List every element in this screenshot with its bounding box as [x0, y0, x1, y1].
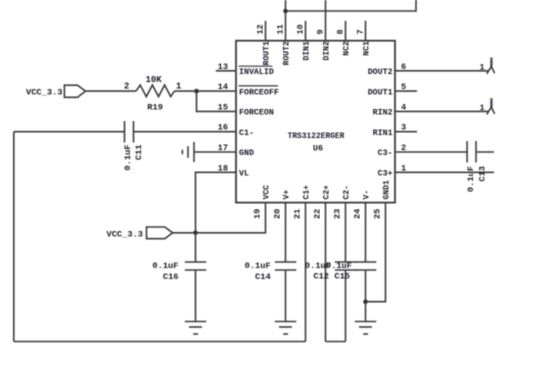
svg-text:5: 5 [401, 82, 406, 92]
svg-text:10K: 10K [146, 75, 163, 85]
pin 14 FORCEOFF label [239, 86, 279, 97]
svg-text:16: 16 [218, 123, 228, 133]
pin 13 stub [216, 62, 236, 72]
pin 5 stub [395, 82, 417, 92]
svg-text:C1-: C1- [239, 129, 254, 138]
pin 19 wire [173, 203, 266, 233]
junction VL / VCC net [193, 231, 198, 236]
wire C16 to ground [195, 270, 197, 322]
pin 24 wire [353, 203, 366, 262]
junction at R19 / pin14 [194, 89, 199, 94]
svg-text:20: 20 [273, 209, 283, 219]
pin 6 wire [395, 62, 489, 72]
pin 3 stub [395, 123, 417, 133]
svg-text:17: 17 [218, 143, 228, 153]
wire C11 to left rail [14, 131, 125, 133]
svg-text:C12: C12 [313, 272, 329, 282]
svg-text:7: 7 [356, 29, 366, 34]
ground (C16) [185, 322, 207, 335]
pin 17 wire [194, 143, 236, 153]
no-connect marker pin 6 [480, 58, 495, 74]
power flag VCC_3.3 (top) [26, 85, 136, 97]
junction at pin 11 [283, 9, 288, 14]
ground (pin 17, rotated left) [182, 142, 194, 162]
svg-text:8: 8 [336, 29, 346, 34]
op-amp U1 : IC body TRS3122ERGER U6 [236, 41, 395, 203]
svg-text:21: 21 [293, 209, 303, 219]
svg-text:C15: C15 [334, 272, 350, 282]
svg-text:GND1: GND1 [382, 180, 391, 199]
svg-text:0.1uF: 0.1uF [123, 145, 133, 171]
svg-text:2: 2 [124, 81, 129, 91]
svg-text:ROUT1: ROUT1 [262, 41, 271, 65]
svg-text:RIN1: RIN1 [373, 129, 393, 138]
svg-text:19: 19 [253, 209, 263, 219]
pin 21 wire [293, 203, 306, 342]
capacitor C11 [123, 121, 144, 171]
pin 14 wire [197, 82, 237, 92]
capacitor C14 [245, 261, 297, 282]
svg-text:6: 6 [401, 62, 406, 72]
svg-text:DIN1: DIN1 [302, 41, 311, 60]
svg-text:15: 15 [218, 102, 228, 112]
svg-text:C3-: C3- [378, 149, 393, 158]
capacitor C13 [466, 141, 494, 192]
svg-text:10: 10 [296, 24, 306, 34]
wire C15 to ground [365, 270, 367, 322]
svg-text:INVALID: INVALID [239, 68, 274, 77]
svg-text:DOUT2: DOUT2 [368, 68, 393, 77]
capacitor C12 [305, 261, 356, 282]
svg-text:V-: V- [362, 190, 371, 200]
svg-text:0.1uF: 0.1uF [245, 261, 271, 271]
ground (C14) [275, 322, 297, 335]
svg-text:0.1uF: 0.1uF [326, 261, 352, 271]
svg-text:1: 1 [480, 103, 485, 113]
pin number 12 [256, 21, 266, 41]
wire bottom rail to pin 21 [14, 341, 306, 343]
svg-text:GND: GND [239, 149, 254, 158]
pin number 10 [296, 21, 306, 41]
svg-text:C16: C16 [163, 272, 179, 282]
wire pin 11 to top edge [285, 0, 287, 41]
svg-text:C14: C14 [255, 272, 271, 282]
wire VL to C16 [195, 233, 197, 262]
pin 13 INVALID label [239, 66, 274, 77]
svg-text:9: 9 [316, 29, 326, 34]
wire C12 to bottom link [345, 270, 347, 342]
svg-text:VCC_3.3: VCC_3.3 [107, 229, 144, 239]
pin 25 wire [366, 203, 386, 302]
pin 4 wire [395, 102, 489, 112]
svg-text:25: 25 [373, 209, 383, 219]
svg-text:V+: V+ [282, 190, 291, 200]
resistor R19 [124, 75, 197, 113]
svg-text:C11: C11 [134, 145, 144, 161]
svg-text:0.1uF: 0.1uF [152, 261, 178, 271]
svg-text:1: 1 [480, 62, 485, 72]
wire left rail vertical [13, 132, 15, 342]
svg-text:DOUT1: DOUT1 [368, 88, 393, 97]
svg-text:U6: U6 [313, 143, 323, 153]
svg-text:3: 3 [401, 123, 406, 133]
power flag VCC_3.3 (bottom) [107, 227, 173, 239]
pin 15 wire [197, 91, 237, 112]
pin 20 wire [273, 203, 286, 262]
pin 22 wire [313, 203, 326, 342]
svg-text:18: 18 [218, 163, 228, 173]
pin 18 wire [196, 163, 237, 233]
svg-text:VCC: VCC [262, 185, 271, 200]
svg-text:22: 22 [313, 209, 323, 219]
svg-text:DIN2: DIN2 [322, 41, 331, 60]
pin number 8 [336, 21, 346, 41]
svg-text:12: 12 [256, 24, 266, 34]
svg-text:C2-: C2- [342, 185, 351, 200]
svg-text:1: 1 [176, 81, 181, 91]
wire pin 9 to top edge [325, 0, 327, 41]
svg-text:VL: VL [239, 170, 249, 179]
svg-text:C13: C13 [477, 166, 487, 182]
svg-text:11: 11 [276, 24, 286, 34]
svg-text:RIN2: RIN2 [373, 109, 393, 118]
svg-text:0.1uF: 0.1uF [466, 166, 476, 192]
ground (V-) [355, 322, 377, 335]
pin 1 wire [395, 163, 494, 173]
junction V- / GND1 [363, 299, 368, 304]
svg-text:C1+: C1+ [302, 185, 311, 200]
svg-text:24: 24 [353, 209, 363, 219]
capacitor C16 [152, 261, 206, 282]
wire C14 to ground [285, 270, 287, 322]
pin 23 wire [333, 203, 346, 262]
svg-text:14: 14 [218, 82, 228, 92]
capacitor C15 [326, 261, 376, 282]
svg-text:VCC_3.3: VCC_3.3 [26, 88, 63, 98]
svg-text:R19: R19 [147, 102, 163, 112]
pin 16 wire left [134, 123, 237, 133]
svg-text:1: 1 [401, 163, 406, 173]
pin number 7 [356, 21, 366, 41]
svg-text:13: 13 [218, 62, 228, 72]
svg-text:23: 23 [333, 209, 343, 219]
no-connect marker pin 4 [480, 98, 495, 114]
pin 2 wire [395, 143, 467, 153]
svg-text:4: 4 [401, 102, 406, 112]
svg-text:C2+: C2+ [322, 185, 331, 200]
svg-text:TRS3122ERGER: TRS3122ERGER [288, 132, 345, 141]
svg-text:C3+: C3+ [378, 170, 393, 179]
svg-text:ROUT2: ROUT2 [282, 41, 291, 65]
svg-text:FORCEOFF: FORCEOFF [239, 88, 279, 97]
svg-text:FORCEON: FORCEON [239, 109, 274, 118]
wire C2 bottom link [326, 341, 346, 343]
svg-text:2: 2 [401, 143, 406, 153]
svg-text:NC2: NC2 [342, 41, 351, 56]
wire top horizontal net [286, 0, 417, 11]
svg-text:NC1: NC1 [362, 41, 371, 56]
